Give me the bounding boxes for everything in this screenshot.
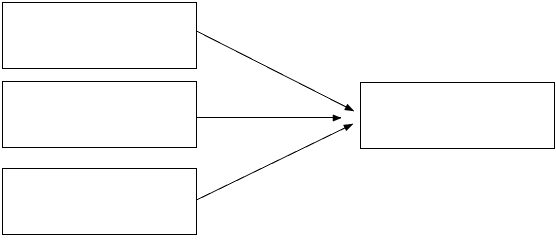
wire arrow A2 from box B2 to box B4 bbox=[197, 115, 342, 121]
box B2 (middle-left input block) bbox=[3, 82, 197, 148]
box B3 (bottom-left input block) bbox=[3, 169, 197, 235]
box B4 (right output block) bbox=[361, 83, 555, 149]
box B1 (top-left input block) bbox=[3, 3, 197, 69]
wire arrow A3 from box B3 to box B4 bbox=[197, 124, 354, 200]
wire arrow A1 from box B1 to box B4 bbox=[197, 31, 355, 111]
